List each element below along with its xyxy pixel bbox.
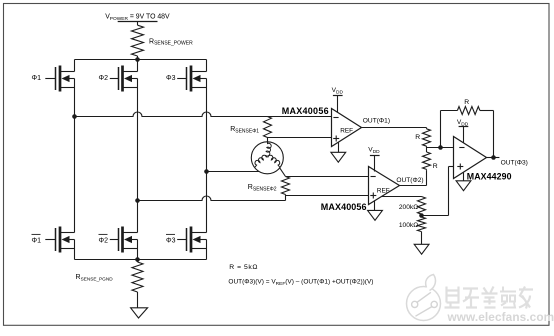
label R (summing top) [415, 134, 420, 141]
wire top rail [75, 59, 207, 61]
wire amp2 +input line [286, 195, 369, 197]
label 100k [399, 222, 418, 229]
svg-text:VDD: VDD [332, 87, 344, 95]
svg-text:R: R [415, 134, 420, 141]
junction feedback tap [438, 145, 443, 150]
wire U2 gnd pin [374, 200, 376, 210]
ground below U2 [368, 210, 383, 220]
resistor R (feedback) + wires [441, 107, 494, 158]
wire OUT(Phi2) [400, 170, 427, 185]
label OUT(Phi3) [501, 159, 528, 166]
label R (summing bottom) [433, 163, 438, 170]
op-amp U3 MAX44290 [454, 137, 487, 179]
svg-text:VDD: VDD [457, 119, 469, 127]
svg-text:OUT(Φ3)(V) = VREF(V) – (OUT(Φ1: OUT(Φ3)(V) = VREF(V) – (OUT(Φ1) +OUT(Φ2)… [228, 279, 373, 287]
wire motor top terminal [267, 138, 269, 143]
node VPOWER supply bar [118, 21, 158, 23]
label output formula [228, 279, 373, 287]
transistor Q4 (phase 1 low side) [45, 227, 74, 253]
label RSENSE_POWER [149, 38, 193, 46]
resistor 100k [418, 216, 426, 245]
wire Q5 source down [137, 249, 139, 260]
svg-text:Φ2: Φ2 [99, 238, 109, 245]
label MAX40056 (U1) [282, 106, 329, 116]
svg-text:RSENSE_POWER: RSENSE_POWER [149, 38, 193, 46]
svg-text:R: R [433, 163, 438, 170]
wire OUT(Phi3) [487, 157, 500, 159]
wire OUT(Phi1) [362, 127, 427, 129]
watermark logo (decorative) [407, 275, 554, 325]
wire amp1 +input line [268, 137, 332, 139]
svg-text:OUT(Φ2): OUT(Φ2) [396, 177, 423, 184]
motor (3-phase windings) [251, 142, 283, 174]
junction phase1 / rail A [72, 114, 77, 119]
svg-text:RSENSEΦ2: RSENSEΦ2 [248, 184, 277, 192]
power VDD stub U1 [332, 87, 344, 112]
wire Q3 drain to rail [206, 60, 208, 72]
wire summing node to U3 -input [427, 147, 454, 149]
op-amp U1 MAX40056 (phase 1) [332, 109, 362, 147]
wire Q4 source down [74, 249, 76, 260]
wire phase 3 vertical [206, 88, 208, 233]
wire U1 REF to ground [338, 142, 340, 152]
wire motor to RSENSEPhi2 [280, 168, 286, 176]
junction bottom rail / RSENSE_PGND [135, 257, 140, 262]
label RSENSE_PGND [76, 274, 114, 281]
label Phi2 [99, 75, 109, 82]
svg-text:200kΩ: 200kΩ [399, 204, 418, 211]
svg-text:Φ1: Φ1 [32, 75, 42, 82]
junction divider [419, 213, 424, 218]
ground below RSENSE_PGND [131, 308, 148, 318]
wire amp2 -input line [286, 176, 369, 178]
wire divider to U3 +input [422, 167, 454, 216]
label VPOWER = 9V TO 48V [105, 13, 170, 21]
svg-text:100kΩ: 100kΩ [399, 222, 418, 229]
wire phase 1 vertical [74, 88, 76, 233]
wire phase3 to motor [207, 171, 259, 173]
wire RSENSEPhi2 bottom to rail B [285, 195, 287, 201]
svg-text:VDD: VDD [368, 147, 380, 155]
svg-text:RSENSEΦ1: RSENSEΦ1 [230, 126, 259, 134]
label Phi3 [166, 75, 176, 82]
transistor Q6 (phase 3 low side) [177, 227, 206, 253]
svg-text:R = 5kΩ: R = 5kΩ [229, 264, 258, 271]
transistor Q5 (phase 2 low side) [110, 227, 138, 253]
junction phase3 / motor line [204, 169, 209, 174]
resistor 200k [418, 197, 426, 216]
junction top rail / RSENSE_POWER [135, 57, 140, 62]
junction phase2 / rail B [135, 198, 140, 203]
power VDD stub U3 [457, 119, 469, 142]
junction feedback / output [491, 155, 496, 160]
label RSENSEPhi1 [230, 126, 259, 134]
label Phi2 bar [99, 234, 109, 244]
svg-text:Φ2: Φ2 [99, 75, 109, 82]
transistor Q2 (phase 2 high side) [110, 66, 138, 92]
transistor Q3 (phase 3 high side) [177, 66, 206, 92]
svg-text:REF: REF [377, 187, 390, 194]
resistor R (top, from OUT(Phi1)) [423, 128, 431, 148]
wire U3 gnd pin [463, 173, 465, 181]
wire Q1 drain to rail [74, 60, 76, 72]
ground below 100k [414, 244, 429, 254]
wire Q6 source down [206, 249, 208, 260]
resistor R (bottom, from OUT(Phi2)) [423, 148, 431, 171]
label 200k [399, 204, 418, 211]
label Phi1 [32, 75, 42, 82]
svg-text:Φ1: Φ1 [32, 238, 42, 245]
label OUT(Phi2) [396, 177, 423, 184]
label R (feedback) [464, 99, 469, 106]
op-amp U2 MAX40056 (phase 2) [369, 167, 400, 205]
transistor Q1 (phase 1 high side) [45, 66, 74, 92]
resistor RSENSE_POWER [132, 22, 144, 60]
label MAX40056 (U2) [321, 202, 367, 212]
label Phi3 bar [166, 234, 176, 244]
ground below U1 [331, 152, 346, 162]
wire bottom rail [75, 259, 207, 261]
svg-text:RSENSE_PGND: RSENSE_PGND [76, 274, 114, 281]
resistor RSENSEPhi2 [282, 177, 290, 195]
wire U2 REF to divider [382, 196, 422, 198]
svg-text:OUT(Φ3): OUT(Φ3) [501, 159, 528, 166]
svg-text:OUT(Φ1): OUT(Φ1) [363, 117, 390, 124]
ground below U3 [456, 181, 471, 191]
wire phase-2 rail B with hop [138, 196, 286, 201]
svg-text:MAX44290: MAX44290 [467, 171, 512, 181]
label RSENSEPhi2 [248, 184, 277, 192]
svg-text:R: R [464, 99, 469, 106]
label OUT(Phi1) [363, 117, 390, 124]
wire phase 2 vertical [137, 88, 139, 233]
svg-text:www.elecfans.com: www.elecfans.com [447, 310, 554, 324]
label Phi1 bar [32, 234, 42, 244]
wire phase-1 sense rail with crossover hops [75, 112, 332, 117]
svg-text:MAX40056: MAX40056 [321, 202, 367, 212]
svg-text:REF: REF [340, 128, 353, 135]
label MAX44290 (U3) [467, 171, 512, 181]
svg-text:Φ3: Φ3 [166, 238, 176, 245]
svg-text:VPOWER = 9V TO 48V: VPOWER = 9V TO 48V [105, 13, 170, 21]
power VDD stub U2 [368, 147, 380, 172]
label R = 5k [229, 264, 258, 271]
resistor RSENSE_PGND [132, 260, 143, 308]
wire Q2 drain to rail [137, 60, 139, 72]
svg-text:MAX40056: MAX40056 [282, 106, 329, 116]
svg-text:Φ3: Φ3 [166, 75, 176, 82]
resistor RSENSEPhi1 [264, 117, 272, 138]
